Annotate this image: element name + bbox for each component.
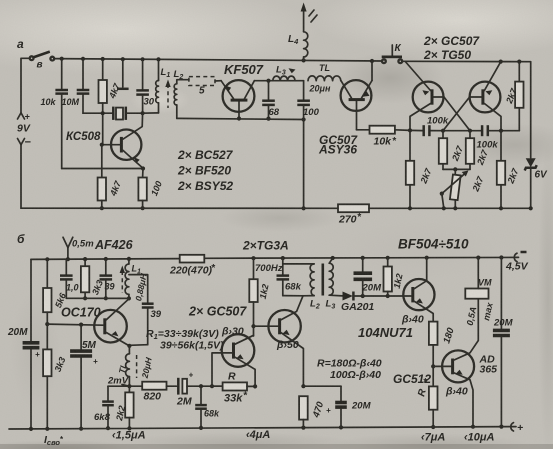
resistor 4k7 lower	[98, 145, 124, 211]
transformer core	[321, 264, 324, 296]
diode GA201	[341, 292, 403, 314]
transistor KF507	[221, 62, 264, 121]
right edge wire + zener diode 6V	[525, 62, 548, 211]
capacitor 68k tank	[277, 258, 304, 296]
resistor 100	[138, 169, 164, 211]
coil L3	[273, 65, 296, 81]
capacitor 30	[136, 59, 154, 113]
transformer core dashed with arrow	[165, 80, 170, 109]
coupling row wires	[408, 128, 519, 133]
main vertical from node to ground	[303, 120, 305, 209]
capacitor 100k left	[424, 116, 449, 137]
2mV annotation	[107, 376, 129, 387]
stub capacitor plate	[117, 59, 129, 89]
antenna 0,5m	[63, 237, 134, 261]
transistor Q multivibrator right	[443, 62, 501, 131]
capacitor 100k right	[477, 125, 499, 150]
capacitor 5M	[70, 325, 98, 431]
pushbutton switch K	[382, 43, 402, 63]
resistor 4k7 upper	[99, 59, 123, 145]
resistor 3k3 lower	[43, 324, 67, 431]
resistor 10k	[357, 126, 411, 148]
dashed coupling box 5	[189, 77, 221, 97]
capacitor 20M output	[493, 258, 514, 429]
quartz crystal	[83, 107, 145, 120]
transistor GC507 driver	[318, 61, 372, 157]
resistor 2k2	[114, 386, 134, 430]
mid-stage bottom wire	[177, 118, 304, 119]
coil TL 20uH	[308, 63, 341, 94]
top rail circuit a	[54, 59, 382, 61]
resistor 180	[429, 322, 457, 369]
ground rail circuit b	[9, 427, 516, 429]
capacitor 10k	[41, 59, 69, 169]
coil L1 0,88uH with tap	[125, 259, 149, 303]
coil L2 (link winding)	[174, 69, 189, 118]
coil L1 (osc transformer primary)	[143, 59, 171, 113]
resistor 2k7 mid-right	[453, 131, 490, 172]
battery terminal plus	[511, 422, 523, 434]
capacitor 39 input	[100, 259, 115, 300]
junction dots on top rail	[60, 57, 375, 64]
top rail circuit b right of 220	[204, 256, 518, 259]
top rail circuit b left of 220	[31, 258, 180, 261]
resistor 2k7 top right	[504, 62, 524, 131]
resistor R* bias	[416, 366, 437, 429]
resistor 1k2 second	[384, 258, 405, 296]
transistor GC512 / AD365 output	[393, 299, 497, 429]
transistor KC508	[66, 114, 143, 169]
switch V (power)	[21, 52, 54, 71]
signal row 820/2M	[108, 385, 142, 387]
ground rail circuit a	[21, 207, 338, 209]
capacitor 6k8	[94, 386, 114, 430]
wire collector KF507 to node	[254, 80, 303, 82]
capacitor 39 tap	[129, 304, 161, 346]
left column + capacitor 20M input	[7, 259, 40, 429]
transistor GC507 b2	[254, 296, 306, 389]
paper noise overlay	[0, 0, 1, 1]
capacitor 1,0	[60, 259, 79, 298]
resistor 2k7 right outer	[497, 131, 521, 211]
capacitor 2M electrolytic	[176, 371, 223, 408]
resistor 2k7 mid-left	[439, 131, 466, 170]
battery terminal minus 4,5V	[505, 252, 529, 273]
capacitor 100	[297, 81, 319, 120]
resistor 5k6	[43, 259, 68, 326]
resistor 1k2 first	[249, 258, 270, 336]
meter VM	[465, 258, 495, 327]
capacitor 20M detector	[354, 258, 383, 296]
resistor 820	[142, 382, 176, 403]
capacitor 68k lower	[195, 386, 220, 430]
transformer L3 secondary	[326, 258, 343, 310]
battery 9V	[17, 58, 32, 208]
resistor 220(470) in rail	[169, 255, 216, 277]
transistor Q multivibrator left	[406, 62, 470, 131]
resistor 3k3 upper	[81, 259, 105, 300]
capacitor 10M	[62, 59, 90, 113]
resistor R 33k	[212, 371, 257, 405]
antenna L4	[288, 3, 317, 61]
capacitor 68	[262, 81, 280, 121]
top rail right section	[402, 60, 531, 62]
collector node row	[66, 297, 129, 299]
resistor 270 in ground rail	[338, 204, 369, 225]
transistor GC507 b2 emitter branch: resistor 470	[299, 396, 326, 427]
transistor OC170	[47, 299, 131, 348]
L1 core dashed with arrow	[120, 266, 125, 294]
trimmer resistor 2k7	[440, 169, 486, 210]
transistor GC507 b1	[212, 326, 255, 387]
transistor 104NU71	[358, 258, 435, 340]
emitter row wire	[62, 168, 143, 170]
capacitor 20M audio	[303, 386, 371, 427]
resistor 2k7 left outer	[406, 131, 434, 211]
coil TL 20uH receiver	[117, 346, 154, 388]
transformer L2 primary	[283, 264, 320, 311]
